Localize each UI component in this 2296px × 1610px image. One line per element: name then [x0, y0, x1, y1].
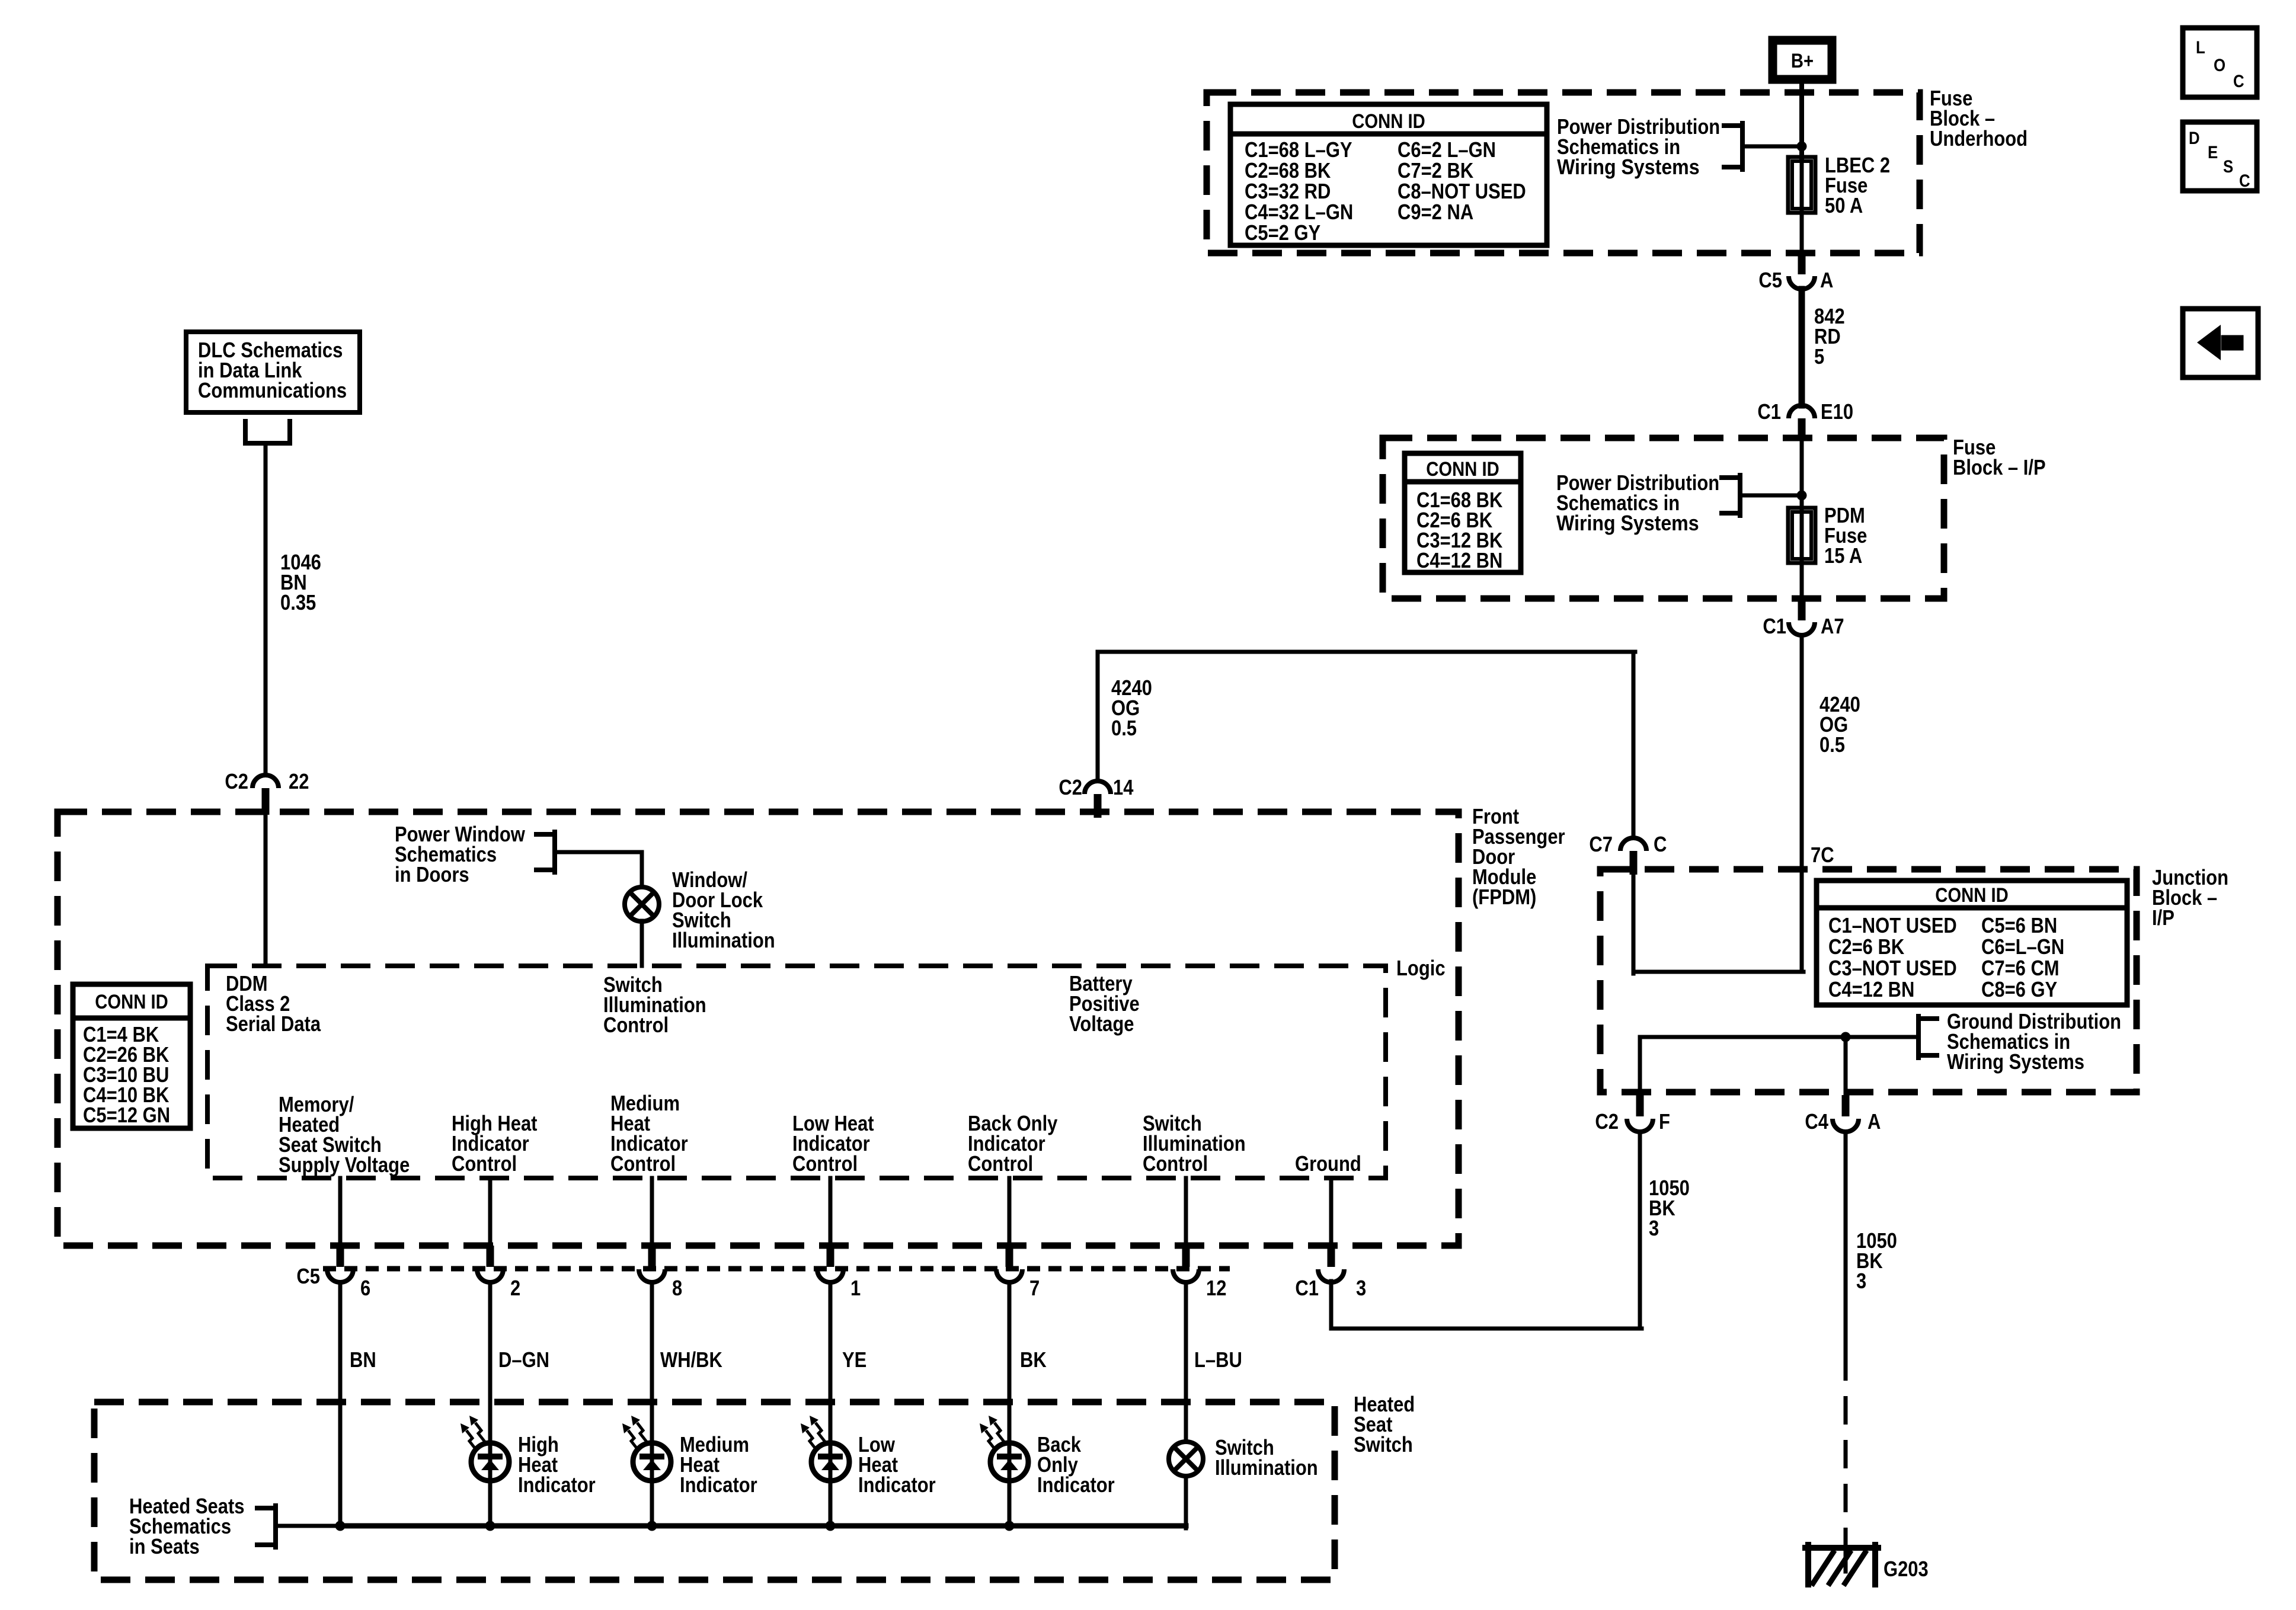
connector C1 pin E10 (fuse block I/P) — [1757, 399, 1853, 438]
wire color label D-GN — [498, 1347, 549, 1372]
wire into PDM fuse — [1800, 438, 1804, 508]
wire WH/BK pin8 to LED — [650, 1283, 654, 1462]
front passenger door module label — [1472, 804, 1565, 909]
ground G203 symbol — [1805, 1545, 1878, 1585]
wire 1050 BK 3 (C4 A to G203) — [1844, 1133, 1848, 1550]
connector row dotted line (C5) — [323, 1266, 1230, 1272]
connector C2 pin 22 (FPDM serial data) — [225, 769, 309, 815]
battery positive voltage label — [1069, 971, 1140, 1036]
battery feed B+ terminal — [1773, 40, 1832, 79]
wire FPDM output to C5 pin 1 — [829, 1178, 833, 1246]
svg-text:C2: C2 — [225, 769, 248, 793]
wire FPDM output to C5 pin 2 — [488, 1178, 493, 1246]
wire FPDM output to C5 pin 6 — [338, 1178, 343, 1246]
svg-text:Indicator: Indicator — [858, 1473, 936, 1497]
svg-text:C5=12 GN: C5=12 GN — [83, 1103, 170, 1127]
wire C7 up to battery feed run — [1632, 652, 1636, 837]
back arrow icon box — [2183, 309, 2258, 377]
svg-text:Ground: Ground — [1295, 1151, 1361, 1176]
svg-text:C7: C7 — [1589, 832, 1613, 856]
fuse block - I/P label — [1953, 435, 2046, 479]
connector C1 pin A7 — [1763, 598, 1844, 638]
switch illumination lamp label — [1215, 1435, 1318, 1480]
svg-text:C1: C1 — [1757, 399, 1781, 424]
connector C5 label — [296, 1264, 320, 1288]
wire 4240 OG 0.5 (down from C1 A7) — [1800, 636, 1804, 972]
svg-text:Supply Voltage: Supply Voltage — [279, 1153, 410, 1177]
junction node bus x=1100 — [647, 1521, 657, 1531]
window/door lock switch illumination label — [672, 868, 775, 952]
svg-text:I/P: I/P — [2152, 905, 2175, 930]
svg-text:Wiring Systems: Wiring Systems — [1947, 1049, 2084, 1074]
power distribution schematics label (I/P) — [1556, 470, 1719, 535]
svg-text:0.5: 0.5 — [1819, 732, 1845, 757]
low heat indicator label — [858, 1432, 936, 1497]
memory/heated seat switch supply voltage label — [279, 1092, 410, 1177]
svg-text:L–BU: L–BU — [1194, 1347, 1242, 1372]
connector C5 pin 1 — [817, 1246, 861, 1300]
wire LED to bus (back only) — [1008, 1462, 1012, 1526]
fuse block - I/P dashed box — [1383, 438, 1944, 598]
wire L-BU pin12 to lamp — [1184, 1283, 1188, 1442]
wire FPDM ground output to C1 pin 3 — [1329, 1178, 1334, 1246]
svg-text:14: 14 — [1113, 775, 1133, 799]
ground G203 label — [1884, 1557, 1929, 1581]
svg-text:C5: C5 — [1758, 268, 1782, 292]
wire lamp to bus (switch illumination) — [1184, 1477, 1188, 1528]
svg-text:YE: YE — [842, 1347, 866, 1372]
fuse PDM 15A — [1788, 508, 1815, 563]
svg-text:Switch: Switch — [1354, 1432, 1413, 1457]
high heat indicator label — [518, 1432, 596, 1497]
lamp window/door lock switch illumination — [625, 887, 659, 921]
svg-text:Wiring Systems: Wiring Systems — [1557, 155, 1700, 179]
svg-text:C: C — [2239, 171, 2250, 191]
svg-text:6: 6 — [360, 1276, 370, 1300]
ground bus wire in heated seat switch — [340, 1523, 1186, 1529]
wire color label BN — [350, 1347, 376, 1372]
svg-text:Communications: Communications — [198, 378, 347, 402]
wire YE pin1 to LED — [829, 1283, 833, 1462]
svg-text:G203: G203 — [1884, 1557, 1929, 1581]
wire color label YE — [842, 1347, 866, 1372]
back only indicator label — [1037, 1432, 1115, 1497]
svg-text:BN: BN — [350, 1347, 376, 1372]
svg-text:Voltage: Voltage — [1069, 1012, 1134, 1036]
svg-text:O: O — [2214, 56, 2225, 75]
connector C2 pin 14 (FPDM battery feed) — [1059, 775, 1133, 818]
svg-text:D–GN: D–GN — [498, 1347, 549, 1372]
connector C4 pin A — [1805, 1095, 1881, 1134]
svg-text:S: S — [2223, 157, 2233, 177]
svg-text:50 A: 50 A — [1825, 193, 1863, 217]
connector C2 pin F — [1595, 1095, 1670, 1134]
logic label — [1396, 956, 1446, 980]
svg-text:C5=6 BN: C5=6 BN — [1981, 913, 2057, 937]
connector C7 pin C (junction block) — [1589, 832, 1667, 875]
fuse LBEC 2 value label — [1825, 153, 1890, 217]
wire down to C2 pin 14 — [1096, 652, 1100, 780]
svg-text:Logic: Logic — [1396, 956, 1446, 980]
svg-text:BK: BK — [1020, 1347, 1047, 1372]
svg-text:in Seats: in Seats — [129, 1534, 200, 1558]
svg-text:CONN ID: CONN ID — [1935, 884, 2009, 907]
wire label 1050 BK 3 (left) — [1649, 1176, 1690, 1240]
LED low heat indicator — [801, 1416, 849, 1481]
LED back only indicator — [980, 1416, 1028, 1481]
wire LED to bus (medium) — [650, 1462, 654, 1526]
svg-text:C4=12 BN: C4=12 BN — [1828, 977, 1914, 1001]
DESC icon box — [2183, 122, 2257, 191]
conn id table (junction block) — [1817, 881, 2127, 1005]
connector C5 pin 2 — [477, 1246, 520, 1300]
svg-text:Indicator: Indicator — [1037, 1473, 1115, 1497]
svg-text:Indicator: Indicator — [518, 1473, 596, 1497]
svg-text:C6=L–GN: C6=L–GN — [1981, 934, 2064, 959]
svg-text:B+: B+ — [1791, 50, 1814, 72]
svg-text:A: A — [1820, 268, 1833, 292]
svg-text:5: 5 — [1814, 344, 1824, 369]
high heat indicator control label — [452, 1111, 538, 1176]
svg-text:15 A: 15 A — [1824, 543, 1862, 568]
svg-text:C5: C5 — [296, 1264, 320, 1288]
low heat indicator control label — [792, 1111, 874, 1176]
connector C5 pin 8 — [639, 1246, 682, 1300]
junction block - I/P label — [2152, 865, 2228, 930]
heated seats schematics reference bracket — [257, 1506, 343, 1547]
wire LED to bus (low) — [829, 1462, 833, 1526]
power distribution reference bracket (underhood) — [1724, 123, 1802, 169]
svg-text:C1: C1 — [1295, 1276, 1319, 1300]
DLC schematics reference box — [186, 332, 360, 412]
svg-text:C1: C1 — [1763, 614, 1786, 638]
svg-text:3: 3 — [1356, 1276, 1366, 1300]
junction block - I/P dashed box — [1600, 869, 2137, 1092]
wire 1050 BK 3 (C2 F to heated seat switch ground) — [1331, 1133, 1642, 1329]
heated seat switch dashed box — [94, 1402, 1335, 1580]
svg-text:0.5: 0.5 — [1111, 716, 1137, 740]
heated seat switch label — [1354, 1392, 1415, 1457]
connector C5 pin 6 — [327, 1246, 370, 1300]
svg-text:Underhood: Underhood — [1930, 126, 2028, 151]
svg-text:C7=6 CM: C7=6 CM — [1981, 956, 2060, 980]
fuse block - underhood label — [1930, 86, 2028, 151]
wire label 4240 OG 0.5 (left) — [1111, 676, 1152, 740]
connector C1 pin 3 — [1295, 1246, 1366, 1300]
svg-text:C2: C2 — [1595, 1109, 1619, 1134]
wire FPDM output to C5 pin 8 — [650, 1178, 654, 1246]
wire 4240 OG horizontal run — [1098, 650, 1635, 654]
conn id table (fuse block I/P) — [1405, 453, 1521, 572]
svg-text:Control: Control — [452, 1151, 517, 1176]
svg-text:Control: Control — [968, 1151, 1033, 1176]
svg-text:Illumination: Illumination — [1215, 1455, 1318, 1480]
fuse PDM value label — [1824, 503, 1867, 568]
svg-text:Control: Control — [603, 1013, 669, 1037]
ground distribution reference bracket — [1640, 1016, 1937, 1058]
svg-text:Control: Control — [610, 1151, 676, 1176]
svg-text:Control: Control — [792, 1151, 858, 1176]
wire D-GN pin2 to LED — [488, 1283, 493, 1462]
power distribution schematics label (underhood) — [1557, 114, 1720, 179]
svg-text:CONN ID: CONN ID — [95, 991, 168, 1013]
svg-text:CONN ID: CONN ID — [1426, 458, 1499, 481]
junction node at PDM fuse — [1797, 491, 1807, 501]
wire 1046 BN 0.35 — [264, 443, 268, 774]
svg-text:C: C — [2233, 72, 2244, 91]
svg-text:C4: C4 — [1805, 1109, 1828, 1134]
svg-text:E10: E10 — [1821, 399, 1853, 424]
wire B+ to LBEC2 fuse — [1799, 84, 1804, 157]
svg-text:0.35: 0.35 — [280, 590, 316, 614]
svg-text:Illumination: Illumination — [672, 928, 775, 952]
conn id table (DDM/FPDM) — [73, 984, 190, 1128]
wire serial data into logic — [264, 815, 268, 966]
wire BN pin6 down to bus — [338, 1283, 343, 1526]
wire label 1046 BN 0.35 — [280, 550, 321, 614]
svg-text:C4=12 BN: C4=12 BN — [1416, 548, 1502, 572]
svg-text:2: 2 — [510, 1276, 520, 1300]
LOC icon box — [2183, 28, 2257, 97]
power window schematics reference bracket — [536, 832, 642, 872]
lamp switch illumination — [1169, 1442, 1203, 1476]
wire fuse to I/P box edge — [1800, 563, 1804, 598]
svg-text:E: E — [2208, 143, 2218, 162]
connector C5 pin A (fuse block underhood) — [1758, 253, 1833, 292]
wire label 1050 BK 3 (right) — [1856, 1228, 1897, 1293]
junction node bus x=574 — [335, 1521, 346, 1531]
power distribution reference bracket (I/P) — [1722, 475, 1802, 516]
svg-text:Control: Control — [1143, 1151, 1208, 1176]
svg-text:C8=6 GY: C8=6 GY — [1981, 977, 2057, 1001]
svg-text:3: 3 — [1649, 1216, 1659, 1240]
svg-text:8: 8 — [672, 1276, 682, 1300]
svg-text:22: 22 — [289, 769, 309, 793]
back only indicator control label — [968, 1111, 1057, 1176]
conn id table (fuse block underhood) — [1230, 104, 1547, 245]
svg-text:7C: 7C — [1811, 843, 1834, 867]
svg-text:Wiring Systems: Wiring Systems — [1556, 511, 1699, 535]
svg-text:C2=6 BK: C2=6 BK — [1828, 934, 1904, 959]
ground distribution schematics label — [1947, 1009, 2121, 1074]
svg-text:CONN ID: CONN ID — [1352, 110, 1425, 133]
svg-text:3: 3 — [1856, 1269, 1866, 1293]
ground wire down to C2 F — [1638, 1037, 1642, 1096]
svg-text:C3–NOT USED: C3–NOT USED — [1828, 956, 1957, 980]
LED high heat indicator — [461, 1416, 509, 1481]
connector C5 pin 7 — [996, 1246, 1040, 1300]
wire BK pin7 to LED — [1008, 1283, 1012, 1462]
wire to window/door lock illumination lamp — [640, 852, 644, 888]
svg-text:in Doors: in Doors — [395, 862, 469, 886]
junction node bus x=1401 — [826, 1521, 836, 1531]
svg-text:1: 1 — [850, 1276, 861, 1300]
svg-text:C1–NOT USED: C1–NOT USED — [1828, 913, 1957, 937]
fuse LBEC 2 50A — [1788, 157, 1815, 213]
wire lamp to logic box — [640, 921, 644, 966]
svg-text:Serial Data: Serial Data — [226, 1012, 321, 1036]
svg-text:F: F — [1659, 1109, 1670, 1134]
svg-text:A: A — [1868, 1109, 1881, 1134]
switch illumination control label (pin 12) — [1143, 1111, 1246, 1176]
svg-text:Block – I/P: Block – I/P — [1953, 455, 2046, 479]
ground label (pin C1-3) — [1295, 1151, 1361, 1176]
heated seats schematics label — [129, 1494, 245, 1558]
ground wire down to C4 A — [1844, 1037, 1848, 1096]
junction node on B+ feed — [1797, 142, 1807, 152]
fuse block - underhood dashed box — [1207, 92, 1920, 253]
svg-text:C9=2 NA: C9=2 NA — [1398, 200, 1473, 224]
wire color label WH/BK — [660, 1347, 722, 1372]
logic dashed box — [207, 966, 1386, 1178]
DDM class 2 serial data label — [226, 971, 321, 1036]
svg-text:C2: C2 — [1059, 775, 1082, 799]
node label 7C — [1811, 843, 1834, 867]
junction node ground split — [1841, 1032, 1851, 1042]
wire FPDM output to C5 pin 7 — [1008, 1178, 1012, 1246]
wire FPDM output to C5 pin 12 — [1184, 1178, 1188, 1246]
svg-text:Indicator: Indicator — [680, 1473, 757, 1497]
LED medium heat indicator — [622, 1416, 671, 1481]
wire color label L-BU — [1194, 1347, 1242, 1372]
front passenger door module dashed box — [57, 812, 1459, 1246]
wire label 4240 OG 0.5 (right) — [1819, 692, 1860, 757]
medium heat indicator label — [680, 1432, 757, 1497]
DLC reference bracket — [245, 421, 290, 443]
svg-text:D: D — [2189, 129, 2200, 148]
svg-text:A7: A7 — [1821, 614, 1844, 638]
junction node bus x=827 — [485, 1521, 495, 1531]
wire LED to bus (high) — [488, 1462, 493, 1526]
svg-text:L: L — [2196, 38, 2205, 57]
svg-text:WH/BK: WH/BK — [660, 1347, 722, 1372]
wire 842 RD 5 — [1799, 289, 1805, 405]
svg-text:(FPDM): (FPDM) — [1472, 885, 1536, 909]
svg-text:12: 12 — [1206, 1276, 1226, 1300]
junction node bus x=1703 — [1005, 1521, 1015, 1531]
connector C5 pin 12 — [1173, 1246, 1226, 1300]
medium heat indicator control label — [610, 1091, 688, 1176]
switch illumination control label (logic top) — [603, 972, 706, 1037]
svg-text:C5=2 GY: C5=2 GY — [1245, 220, 1320, 245]
wire jog into junction block — [1633, 875, 1803, 974]
svg-text:7: 7 — [1029, 1276, 1040, 1300]
svg-text:C: C — [1654, 832, 1667, 856]
wire color label BK — [1020, 1347, 1047, 1372]
wire fuse to box edge — [1800, 213, 1804, 253]
wire label 842 RD 5 — [1814, 304, 1845, 369]
power window schematics label — [395, 822, 526, 886]
